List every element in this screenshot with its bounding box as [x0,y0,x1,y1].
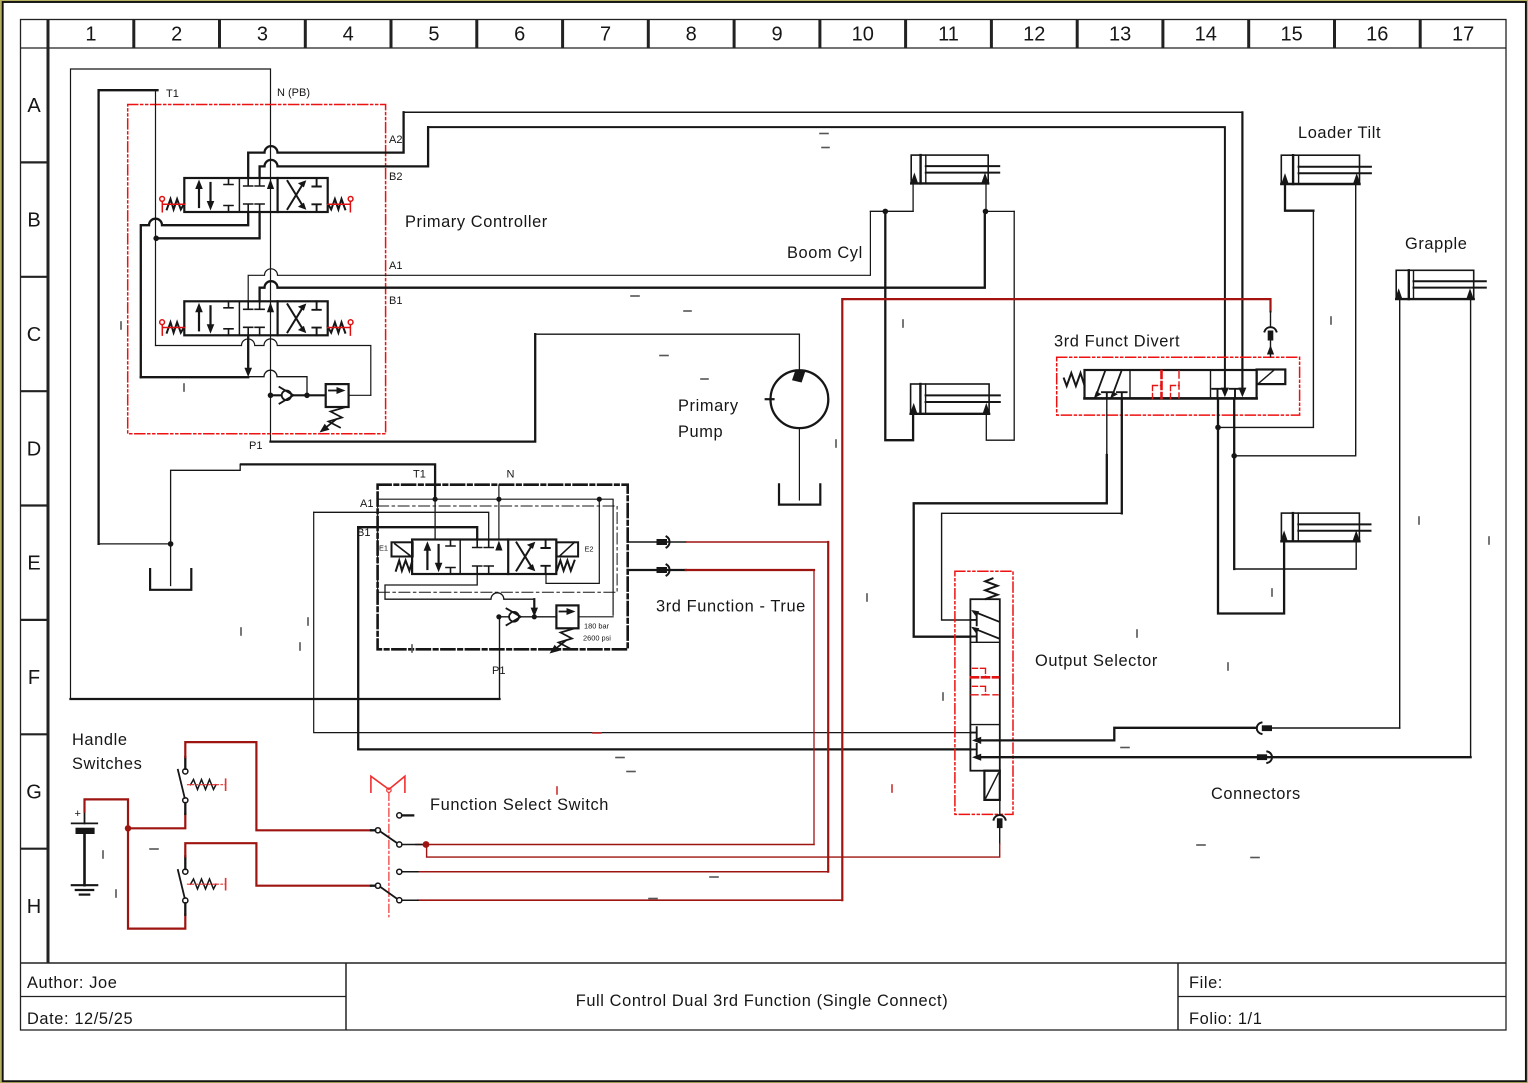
svg-text:3: 3 [257,24,268,46]
port arrows Grapple [1395,288,1402,299]
V2 up arrow [198,309,200,330]
V1 up arrow [198,186,200,207]
connector male (grapple right) [1257,752,1471,763]
svg-text:E: E [27,553,40,575]
VD diagonal paths [1096,371,1106,397]
svg-text:P1: P1 [492,665,505,677]
svg-text:Connectors: Connectors [1211,785,1301,803]
pilot line V1 right (red) [328,201,351,211]
V3 up arrow [426,548,428,569]
pilot line V2 right (red) [328,325,351,335]
svg-text:Primary: Primary [678,397,739,415]
letter column divider [47,20,50,964]
svg-text:N: N [507,469,515,481]
svg-text:A1: A1 [389,260,402,272]
svg-text:1: 1 [85,24,96,46]
svg-text:+: + [75,808,81,820]
wire T1 elbow to tank junction [99,543,171,545]
svg-text:A1: A1 [360,498,373,510]
cylinder Loader Tilt [1281,155,1371,184]
wire red B to function switch [686,569,814,571]
valve VD body (divert) [1085,370,1257,398]
pump P (Primary Pump) [771,370,829,428]
wire pump to tank [798,428,800,500]
V3 blocked stubs left cell [446,540,455,575]
svg-text:15: 15 [1280,24,1302,46]
arrows into VS east ports [972,737,981,744]
V3 blocked stubs right cell [541,540,549,575]
wire red switch2 top [185,843,371,886]
detent VD (red dashed) [1153,371,1180,399]
V2 blocked stubs centre cell [244,301,264,309]
battery BT1 [72,808,98,885]
wire A1 into valve [314,512,489,539]
spring E2 side [557,560,575,570]
wire N (PB) feed [71,69,271,699]
VS port stubs lower section [970,727,976,755]
pilot line V2 left (red) [162,325,184,335]
wire relief return [579,616,614,618]
svg-text:E2: E2 [585,545,594,554]
relief valve RV2 [556,605,578,628]
header bottom line [21,47,1507,49]
port arrows Boom Cyl 1 [911,173,918,184]
function select switch marker M (red) [371,776,405,917]
svg-text:B2: B2 [389,171,402,183]
V1 crossed arrows [288,183,304,209]
V3 blocked stubs centre [473,540,494,548]
junction node bus T [433,497,438,502]
wire A2 [248,112,403,178]
enclosure 3rd Funct Divert red box [1057,357,1300,415]
enclosure 3rd Function valve box [378,485,628,650]
detent SW1 (zigzag) [188,779,226,790]
svg-text:F: F [28,667,40,689]
junction node red dot [423,841,430,848]
spring RV1 [329,408,345,428]
enclosure inner sub-box [378,506,617,592]
svg-text:11: 11 [938,24,959,46]
function switch stub contact [397,813,414,818]
valve V2 body (lower primary valve) [184,301,327,335]
wire boom right drop [986,211,1014,440]
pilot line V1 left (red) [162,201,184,211]
svg-text:Boom Cyl: Boom Cyl [787,244,863,262]
svg-text:Loader Tilt: Loader Tilt [1298,124,1381,142]
wire red selector pilot to switch dot [427,844,1000,857]
enclosure Output Selector red box [955,571,1013,814]
wire boom left drop [885,211,913,440]
svg-text:G: G [26,782,42,804]
svg-text:4: 4 [343,24,354,46]
valve VS body (output selector) [970,599,999,771]
junction node [496,614,501,619]
wire red A to function switch [686,541,828,543]
junction node [268,393,274,399]
connector A out [628,537,686,548]
svg-text:8: 8 [686,24,697,46]
wire P1 main [271,334,536,441]
wire grapple right riser [1470,299,1472,757]
svg-text:2: 2 [171,24,182,46]
spring V2 left [167,322,185,332]
V1 down arrow [209,183,211,204]
wire T1 internal drop [155,90,157,345]
wire P1 to pump [535,334,799,370]
svg-text:3rd Function - True: 3rd Function - True [656,598,806,616]
wire red switch1 top [185,742,371,830]
svg-text:N (PB): N (PB) [277,87,310,99]
tank pump [779,484,820,504]
spring V1 right [328,199,346,209]
wire P1 supply 3rd function [499,617,501,699]
cylinder Boom Cyl 1 [911,155,999,183]
cylinder Tilt 2 (lower right) [1281,513,1370,541]
V3 crossed arrows [517,545,533,571]
wire V1 bottom port to P drop [141,212,248,377]
wire red to switch1 [128,814,185,828]
title block [21,962,1507,964]
wire relief out [349,394,371,396]
wire check line [271,394,326,396]
wire A1 drop to selector [314,512,971,732]
junction node [304,393,310,399]
wire B2 [260,127,429,178]
valve V3 body (3rd function) [412,540,556,575]
spring V1 left [167,199,185,209]
wire selector pilot [999,800,1001,815]
spring VD left [1064,373,1085,386]
check valve CV1 [280,387,294,404]
svg-text:Output Selector: Output Selector [1035,652,1158,670]
junction node [1231,453,1237,459]
wire selector east port A [981,728,1256,741]
svg-text:File:: File: [1189,974,1223,992]
junction node [532,614,537,619]
svg-text:3rd Funct Divert: 3rd Funct Divert [1054,333,1180,351]
wire V3 right port return [546,499,599,583]
tank T1 [150,569,191,590]
solenoid E1 [392,542,413,556]
V1 blocked stubs centre cell [244,178,264,186]
svg-text:180 bar: 180 bar [584,622,610,631]
wire red to switch2 [128,828,185,928]
wire T1 feed [99,90,158,544]
svg-text:T1: T1 [413,469,426,481]
wire grapple left riser [1399,299,1401,728]
V2 blocked stubs right cell [312,301,320,335]
wire P to check valve [248,370,307,395]
row dividers [21,162,49,848]
svg-text:2600 psi: 2600 psi [583,634,611,643]
noise ticks red [557,733,892,794]
detent SW2 (zigzag) [188,879,226,890]
arrow RV2 [554,641,566,651]
wire A1 [248,211,913,301]
svg-text:B1: B1 [389,295,402,307]
V1 N port arrow [267,179,274,189]
relief valve RV1 [326,384,349,407]
spring V2 right [328,322,346,332]
connector divert pilot [1265,311,1277,356]
port arrows Loader Tilt [1281,173,1288,184]
svg-text:Primary Controller: Primary Controller [405,213,548,231]
svg-text:Function Select Switch: Function Select Switch [430,796,609,814]
svg-text:Full Control Dual 3rd Function: Full Control Dual 3rd Function (Single C… [576,992,949,1010]
V2 down arrow [209,306,211,327]
junction node tank [168,541,174,547]
wire VD out left ports to output selector [1106,398,1108,455]
VD port stubs left cell [1102,392,1127,398]
svg-text:13: 13 [1109,24,1131,46]
wire V1 bottom port to T1 [157,212,260,238]
wire red battery to switches [85,799,129,828]
svg-text:7: 7 [600,24,611,46]
V2 crossed arrows [288,306,304,332]
V1 blocked stubs left cell [224,178,233,212]
svg-text:Folio: 1/1: Folio: 1/1 [1189,1010,1262,1028]
wire selector east port B [981,756,1257,758]
port arrows Tilt 2 [1281,530,1288,541]
svg-text:A: A [27,95,41,117]
junction node [1215,425,1221,431]
connector female (grapple left) [1257,723,1400,734]
V2 blocked stubs left cell [224,301,233,335]
junction node [883,209,889,215]
svg-text:Author: Joe: Author: Joe [27,974,117,992]
column dividers [134,20,1420,49]
spring VS top [985,578,997,599]
svg-text:5: 5 [428,24,439,46]
wire check relief line [499,616,557,618]
wire boom cyl1 right port [986,183,1015,211]
wire T1 to 3rd function valve [171,464,436,544]
port arrows Boom Cyl 2 [910,403,917,414]
noise ticks [103,134,1489,899]
spring E1 side [396,560,412,570]
junction dot [153,236,159,242]
wire T drop to valve [434,499,436,539]
svg-text:H: H [27,896,41,918]
connector B out [628,565,686,576]
svg-text:P1: P1 [249,440,262,452]
svg-text:E1: E1 [379,544,388,553]
junction node bus R [597,497,602,502]
svg-text:Pump: Pump [678,423,723,441]
svg-text:9: 9 [771,24,782,46]
svg-text:14: 14 [1195,24,1217,46]
wire VD right ports down [1218,398,1284,613]
svg-text:B: B [27,210,40,232]
svg-text:12: 12 [1023,24,1045,46]
svg-text:16: 16 [1366,24,1388,46]
ground battery [72,885,97,894]
wire B1 drop to selector [358,527,970,749]
row letters [26,95,42,918]
svg-text:10: 10 [852,24,874,46]
wire boom cyl1 left port [870,183,913,211]
arrows into VD work ports [1221,388,1229,398]
VS diagonal paths [974,612,999,622]
function switch throw2 [397,869,418,874]
valve V1 body (upper primary valve) [184,178,327,212]
V3 down arrow [438,545,440,566]
svg-text:D: D [27,438,41,460]
wire B1 into valve [358,527,477,539]
solenoid VD right [1257,370,1286,385]
VD port stubs right cell [1212,389,1240,399]
junction node [983,209,989,215]
switch SW2 (handle) [178,856,188,914]
svg-text:6: 6 [514,24,525,46]
VS port stubs top section [970,615,976,642]
V2 N port arrow [267,302,274,312]
function switch pole2 [371,883,418,903]
wire B1 [260,211,985,301]
wire tank drop [170,544,172,586]
wire N drop to valve [498,485,500,540]
solenoid VS bottom [984,771,999,800]
svg-text:A2: A2 [389,134,402,146]
cylinder Grapple [1396,270,1486,299]
svg-text:T1: T1 [166,88,179,100]
svg-text:Date: 12/5/25: Date: 12/5/25 [27,1010,133,1028]
wire tank return [156,339,371,395]
enclosure Primary Controller red box [128,105,386,434]
V1 blocked stubs right cell [312,178,320,212]
svg-text:Grapple: Grapple [1405,235,1468,253]
cylinder Boom Cyl 2 [911,384,1000,414]
wire internal T/N bus [378,499,613,615]
wire P supply to V2 [141,337,248,377]
svg-text:Handle: Handle [72,731,128,749]
spring RV2 [559,629,575,649]
svg-text:C: C [27,324,41,346]
wire red function switch contact3 [418,899,842,901]
column numbers [85,24,1474,46]
svg-text:17: 17 [1452,24,1474,46]
junction node bus N [496,497,501,502]
wire to loader tilt right [1234,184,1356,456]
detent VS (red dashed) [971,668,998,695]
function switch pole1 [371,828,423,847]
connector selector pilot [994,815,1006,844]
check valve CV2 [507,609,521,626]
V3 N port arrow [495,541,502,551]
wire red divert pilot [843,299,1271,311]
wire to loader tilt left [1218,184,1313,427]
junction node red [125,825,131,831]
svg-text:Switches: Switches [72,755,142,773]
solenoid E2 [557,542,579,556]
arrow RV1 [324,420,336,430]
switch SW1 (handle) [178,757,188,814]
wire V3 tank return [385,574,534,610]
